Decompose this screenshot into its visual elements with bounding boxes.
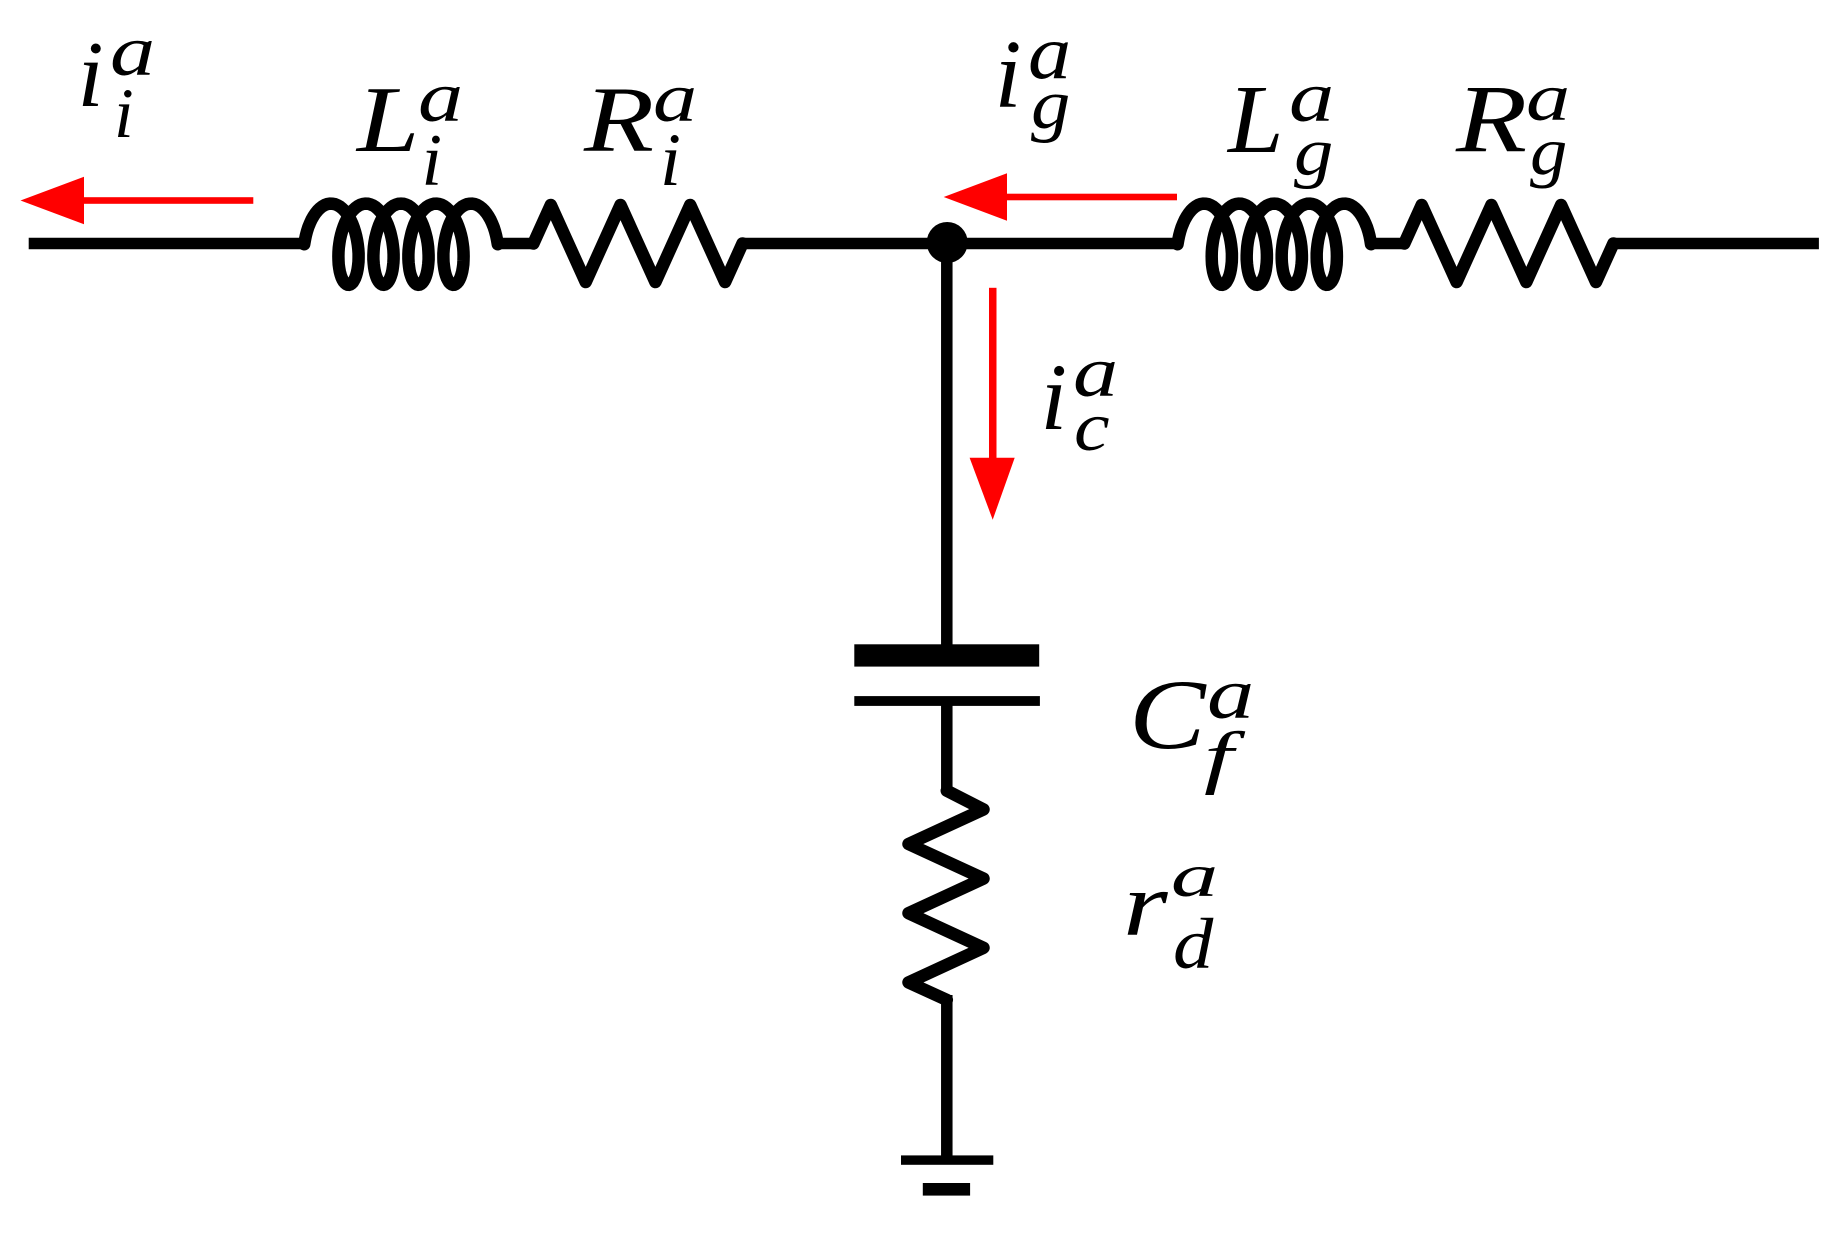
svg-text:i: i <box>422 120 443 202</box>
svg-text:d: d <box>1173 905 1214 984</box>
svg-text:C: C <box>1129 659 1207 770</box>
svg-text:g: g <box>1530 114 1567 189</box>
svg-text:R: R <box>1455 65 1527 172</box>
svg-text:i: i <box>114 75 134 153</box>
svg-text:i: i <box>995 21 1022 129</box>
svg-text:g: g <box>1031 66 1070 144</box>
svg-text:L: L <box>355 68 420 172</box>
svg-text:i: i <box>78 23 104 127</box>
svg-text:c: c <box>1074 389 1110 466</box>
svg-text:r: r <box>1123 854 1169 955</box>
svg-text:i: i <box>660 119 681 202</box>
svg-text:i: i <box>1041 344 1068 450</box>
svg-text:R: R <box>583 69 654 172</box>
svg-text:g: g <box>1294 114 1333 189</box>
svg-text:L: L <box>1226 66 1284 174</box>
svg-text:a: a <box>1171 842 1218 910</box>
